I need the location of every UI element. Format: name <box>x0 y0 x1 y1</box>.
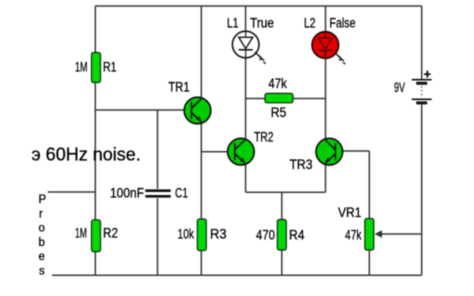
wire left vertical lower <box>94 252 96 276</box>
wire C1 branch lower <box>157 198 159 275</box>
svg-text:TR1: TR1 <box>168 80 190 95</box>
svg-text:TR2: TR2 <box>254 130 274 145</box>
svg-text:L1: L1 <box>227 16 239 31</box>
battery B1 9V <box>394 67 432 103</box>
svg-text:R5: R5 <box>271 105 287 120</box>
wire emitter join <box>246 191 326 193</box>
wire right vertical lower <box>421 105 423 276</box>
wire TR1 emitter to R3 <box>200 122 202 275</box>
wire R4 branch <box>281 192 283 275</box>
svg-text:e: e <box>39 251 45 263</box>
LED L2 <box>304 16 356 65</box>
wire probe stub <box>48 191 96 193</box>
LED L1 <box>227 16 274 65</box>
wire TR1 collector <box>200 6 202 99</box>
wire top rail <box>95 5 421 7</box>
svg-text:470: 470 <box>256 228 275 243</box>
svg-text:True: True <box>250 16 274 31</box>
wire TR2 base <box>201 151 229 153</box>
wire TR3 base <box>342 150 369 152</box>
svg-text:False: False <box>330 16 356 31</box>
wire VR1 branch <box>368 151 370 275</box>
wire TR3 emitter <box>325 164 327 192</box>
wire L2 vertical <box>325 6 327 139</box>
svg-text:R3: R3 <box>210 227 227 242</box>
svg-text:VR1: VR1 <box>338 205 362 220</box>
svg-text:C1: C1 <box>175 186 188 201</box>
transistor TR2 <box>228 130 274 166</box>
svg-text:R1: R1 <box>103 60 117 75</box>
potentiometer VR1 <box>338 205 382 250</box>
svg-text:o: o <box>39 223 45 235</box>
svg-text:P: P <box>39 194 47 206</box>
svg-text:L2: L2 <box>304 16 316 31</box>
wire bottom rail <box>52 274 422 276</box>
wire right vertical upper <box>421 6 423 79</box>
wire TR2 emitter <box>245 164 247 192</box>
text Probes <box>39 194 47 278</box>
svg-text:TR3: TR3 <box>290 157 313 172</box>
svg-text:1M: 1M <box>75 60 88 75</box>
resistor R3 <box>178 219 227 251</box>
wire left vertical upper <box>94 6 96 53</box>
svg-text:47k: 47k <box>268 76 287 91</box>
svg-text:R4: R4 <box>289 228 305 243</box>
resistor R4 <box>256 220 305 251</box>
svg-text:R2: R2 <box>103 226 118 241</box>
transistor TR1 <box>168 80 211 124</box>
wire left vertical middle <box>94 83 96 220</box>
resistor R1 <box>75 53 117 83</box>
svg-text:э 60Hz noise.: э 60Hz noise. <box>32 145 141 165</box>
resistor R5 <box>265 76 293 120</box>
svg-text:+: + <box>424 67 432 82</box>
wire L1 vertical <box>245 6 247 139</box>
svg-text:10k: 10k <box>178 227 195 242</box>
svg-text:9V: 9V <box>394 80 405 95</box>
svg-text:1M: 1M <box>75 226 87 241</box>
svg-text:47k: 47k <box>345 228 362 243</box>
capacitor C1 <box>110 186 188 201</box>
wire VR1 wiper <box>377 233 422 235</box>
wire TR1 base <box>95 109 185 111</box>
svg-text:100nF: 100nF <box>110 186 144 201</box>
transistor TR3 (mirrored) <box>290 138 343 172</box>
wire C1 branch upper <box>157 110 159 189</box>
svg-text:r: r <box>39 208 43 220</box>
svg-text:b: b <box>39 237 45 249</box>
resistor R2 <box>75 220 118 252</box>
wire R5 horizontal <box>246 98 326 100</box>
svg-text:s: s <box>39 266 45 278</box>
